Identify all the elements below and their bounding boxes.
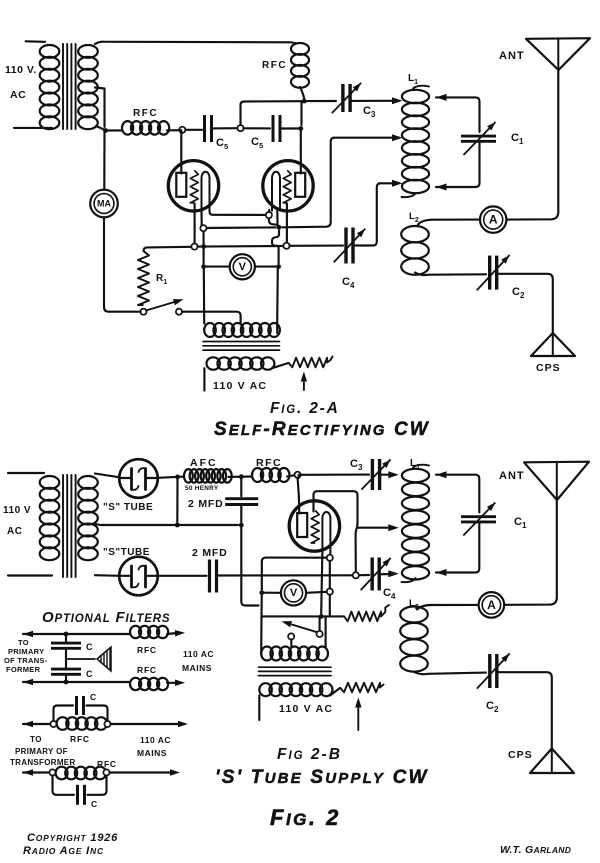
filter2 RFC lower xyxy=(56,767,68,780)
svg-text:PRIMARY: PRIMARY xyxy=(8,647,44,656)
filter2 bypass capacitor C lower xyxy=(53,776,75,795)
wire center tap to filter caps xyxy=(95,524,238,525)
svg-text:AC: AC xyxy=(10,89,26,101)
wire C3 to L1 top tap xyxy=(350,100,394,102)
svg-text:TRANSFORMER: TRANSFORMER xyxy=(10,758,76,767)
rectifier S tube 1 xyxy=(119,459,158,498)
keying transformer T2 primary xyxy=(204,323,216,337)
node: tube V1 plate junction xyxy=(179,127,185,133)
filter1 lower mains lead xyxy=(23,679,33,685)
svg-text:W.T. GARLAND: W.T. GARLAND xyxy=(500,844,571,856)
variable capacitor C3 fig2B xyxy=(301,474,369,476)
svg-text:CPS: CPS xyxy=(508,749,533,761)
riser from rectifier output down to filter rail xyxy=(176,477,178,525)
wire L2 bottom to C2 fig2B xyxy=(414,672,486,674)
svg-text:RFC: RFC xyxy=(133,108,158,119)
wire C4 to L1 bottom riser xyxy=(353,183,381,245)
T2 core xyxy=(203,341,280,343)
svg-text:MA: MA xyxy=(97,199,111,209)
filament rail between tubes xyxy=(203,226,275,229)
variable capacitor C4 fig2B xyxy=(371,558,374,591)
svg-text:RFC: RFC xyxy=(256,457,282,469)
V1 grid lead xyxy=(194,204,196,244)
voltmeter bridge wire xyxy=(262,558,327,590)
svg-text:AFC: AFC xyxy=(190,457,218,469)
keying transformer T4 primary xyxy=(261,647,273,661)
svg-text:OF TRANS-: OF TRANS- xyxy=(4,656,48,665)
wire AFC to RFC xyxy=(229,475,253,478)
left riser to key transformer T4 xyxy=(260,593,262,617)
svg-text:C: C xyxy=(86,642,93,652)
L1 right top tap from C1 loop fig2B xyxy=(436,475,479,513)
risers to key transformer xyxy=(203,267,206,324)
svg-text:'S' TUBE SUPPLY CW: 'S' TUBE SUPPLY CW xyxy=(215,767,429,788)
svg-text:50 HENRY: 50 HENRY xyxy=(185,485,219,492)
svg-text:PRIMARY OF: PRIMARY OF xyxy=(15,747,68,756)
wire grid rail to C4 xyxy=(290,245,343,247)
variable capacitor C1 xyxy=(461,135,496,138)
svg-text:2 MFD: 2 MFD xyxy=(188,498,224,510)
node: filament junction xyxy=(96,126,106,131)
wire grid node to L1 mid tap xyxy=(358,527,391,529)
antenna lead-in wire xyxy=(507,70,559,220)
capacitor C5b xyxy=(272,115,275,142)
svg-text:A: A xyxy=(487,598,496,612)
filter2 RFC upper xyxy=(57,717,69,730)
V3 plate lead to plate node xyxy=(298,475,300,478)
wire C1 bottom to L1 bottom right tap xyxy=(436,143,480,188)
wire: secondary center tap down to junction xyxy=(95,88,105,128)
V1 filament leads xyxy=(200,210,202,225)
svg-text:RADIO AGE INC: RADIO AGE INC xyxy=(23,845,104,857)
wire to capacitor C5a xyxy=(185,129,202,131)
wire A to L2 top xyxy=(418,220,480,225)
variable capacitor C2 fig2B xyxy=(488,654,491,688)
svg-text:TO: TO xyxy=(18,638,29,647)
V3 filament leads xyxy=(321,551,322,614)
wire secondary bottom to S tube 2 xyxy=(95,574,120,577)
FIG 2-B: power transformer T3 110V AC xyxy=(8,472,44,474)
wire L2 bottom to C2 xyxy=(415,273,486,276)
tube V1 triode xyxy=(168,161,218,211)
oscillator tube V3 triode xyxy=(289,501,339,551)
antenna lead-in fig2B xyxy=(505,500,557,605)
svg-text:"S"TUBE: "S"TUBE xyxy=(103,547,150,558)
svg-text:RFC: RFC xyxy=(70,734,90,744)
keying rheostat xyxy=(288,358,327,368)
switch rail fig2B xyxy=(262,616,320,631)
wire: secondary top to plate RFC xyxy=(95,42,291,44)
wire V2 filament down to voltmeter rail xyxy=(272,231,279,264)
filter1 upper mains lead xyxy=(23,631,33,637)
rheostat arm arrow fig2B xyxy=(357,703,359,730)
secondary rheostat fig2B xyxy=(340,683,380,693)
svg-text:2 MFD: 2 MFD xyxy=(192,547,228,559)
wire V1 filament chain down to key transformer xyxy=(203,248,205,264)
MA leads xyxy=(103,132,105,190)
rheostat arm arrow xyxy=(303,377,305,390)
filter1 ground symbol xyxy=(66,658,95,660)
svg-text:A: A xyxy=(489,213,498,227)
V2 grid lead xyxy=(286,204,288,243)
key switch fig2B xyxy=(317,631,323,637)
svg-text:C: C xyxy=(86,669,93,679)
riser: plate node down to V2 plate xyxy=(300,101,302,125)
milliammeter MA xyxy=(90,190,118,218)
svg-text:V: V xyxy=(239,261,247,273)
svg-text:110 AC: 110 AC xyxy=(140,735,171,745)
wire C5b to plate node of V2 xyxy=(280,127,301,129)
rectifier S tube 2 xyxy=(119,557,158,596)
filter1 capacitor C lower xyxy=(65,649,67,669)
svg-text:MAINS: MAINS xyxy=(137,748,167,758)
filter2 bypass capacitor C upper xyxy=(54,706,74,722)
wire C2 to counterpoise fig2B xyxy=(497,672,552,748)
svg-text:ANT: ANT xyxy=(499,50,525,62)
V2 filament leads xyxy=(266,212,272,218)
riser: bracket from node up across to C3 xyxy=(241,101,304,125)
riser filter node down to key transformer xyxy=(241,527,258,606)
T2 secondary to rheostat xyxy=(272,363,288,368)
svg-text:COPYRIGHT 1926: COPYRIGHT 1926 xyxy=(27,832,118,844)
ammeter A fig2B xyxy=(479,592,505,618)
svg-text:110 V AC: 110 V AC xyxy=(279,703,333,715)
svg-text:MAINS: MAINS xyxy=(182,663,212,673)
svg-text:TO: TO xyxy=(30,735,42,744)
svg-text:C: C xyxy=(90,692,97,702)
svg-text:FORMER: FORMER xyxy=(6,665,41,674)
T4 secondary to rheostat xyxy=(330,688,340,696)
variable capacitor C1 fig2B xyxy=(461,515,496,518)
wire junction to RFC choke xyxy=(106,129,123,131)
svg-text:"S" TUBE: "S" TUBE xyxy=(103,502,153,513)
wire secondary top to S tube 1 xyxy=(95,474,120,478)
grid leak resistor R1 xyxy=(138,251,149,305)
svg-text:CPS: CPS xyxy=(536,362,561,374)
V1 plate lead xyxy=(180,130,182,174)
tube V2 triode xyxy=(263,161,313,211)
T4 secondary xyxy=(259,683,272,696)
C4 wire to L1 bottom tap fig2B xyxy=(359,574,369,576)
svg-text:FIG 2-B: FIG 2-B xyxy=(277,746,342,763)
svg-text:RFC: RFC xyxy=(137,665,157,675)
filter1 RFC lower xyxy=(130,678,141,690)
counterpoise CPS xyxy=(531,333,575,356)
voltmeter rail fig2B xyxy=(259,590,264,595)
V2 plate lead xyxy=(300,150,302,174)
V1 filament lead continues to grid rail xyxy=(202,231,204,244)
FIG 2-A: power transformer T1 110V AC xyxy=(26,40,45,43)
variable capacitor C3 xyxy=(341,84,344,112)
wire C5a to node xyxy=(212,127,238,129)
wire RFC to node xyxy=(167,129,179,131)
keying rheostat fig2B xyxy=(344,612,381,622)
capacitor C5a xyxy=(203,115,206,142)
svg-text:RFC: RFC xyxy=(262,60,287,71)
wire switch to key transformer tap xyxy=(182,312,241,324)
filter1 RFC upper xyxy=(130,626,141,638)
wire C2 to counterpoise xyxy=(497,274,553,333)
grid resistor rail xyxy=(144,247,192,251)
svg-text:110 V: 110 V xyxy=(3,505,31,516)
key switch xyxy=(140,309,146,315)
wire C1 bottom to L1 bottom right tap fig2B xyxy=(436,523,479,573)
svg-text:SELF-RECTIFYING CW: SELF-RECTIFYING CW xyxy=(214,419,430,440)
voltmeter V xyxy=(230,254,255,279)
wire node to capacitor C5b xyxy=(244,127,270,129)
svg-text:FIG. 2-A: FIG. 2-A xyxy=(270,400,340,417)
svg-text:RFC: RFC xyxy=(137,645,157,655)
wire filament rail to L1 mid tap riser xyxy=(282,138,334,228)
T2 secondary xyxy=(207,357,220,369)
wire S tube 1 to AFC xyxy=(158,477,184,478)
V3 grid lead and riser to L1 mid tap xyxy=(314,491,358,572)
svg-text:110 V AC: 110 V AC xyxy=(213,380,267,392)
svg-text:ANT: ANT xyxy=(499,470,525,482)
voltmeter rail xyxy=(201,264,206,269)
svg-text:V: V xyxy=(290,587,298,599)
svg-text:C: C xyxy=(91,799,98,809)
filter1 capacitor C upper xyxy=(65,634,67,643)
filter2 upper mains lead xyxy=(23,721,33,727)
svg-text:AC: AC xyxy=(7,526,22,537)
T4 core xyxy=(259,666,332,668)
svg-text:110 AC: 110 AC xyxy=(183,649,214,659)
filter2 lower mains lead xyxy=(23,769,33,776)
ammeter A xyxy=(480,206,506,232)
counterpoise CPS fig2B xyxy=(530,749,574,774)
voltmeter V fig2B xyxy=(281,580,306,605)
wire RFC to plate node xyxy=(287,475,295,476)
svg-text:110 V.: 110 V. xyxy=(5,64,37,76)
wire A to L2 fig2B xyxy=(417,605,479,610)
L1 bottom tap wire from C4 xyxy=(379,182,394,184)
L1 right top tap from C1 loop xyxy=(436,97,480,132)
L1 mid tap wire from keyed circuit xyxy=(334,137,395,139)
variable capacitor C4 xyxy=(344,228,347,264)
node: grid bracket junction xyxy=(237,125,243,131)
variable capacitor C2 xyxy=(488,256,491,290)
